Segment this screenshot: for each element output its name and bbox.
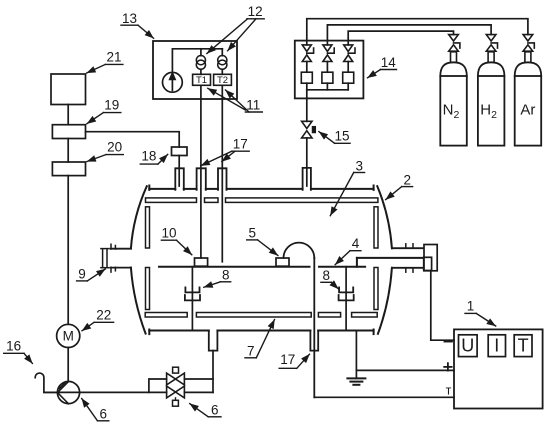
cylinder dome H bbox=[478, 62, 505, 76]
left end cap curve bottom bbox=[131, 268, 146, 334]
inlet valve 15 bbox=[302, 121, 312, 128]
right vertical shield upper bbox=[374, 207, 378, 248]
right end cap curve bottom bbox=[378, 268, 392, 334]
svg-text:19: 19 bbox=[104, 98, 119, 113]
left vertical shield upper bbox=[146, 207, 150, 248]
bottom heat shield bar 3 bbox=[318, 313, 340, 318]
wire feedthrough to minus terminal bbox=[431, 271, 454, 340]
cylinder body Ar bbox=[515, 76, 542, 146]
pump vanes bbox=[58, 382, 69, 393]
unit 1 I module bbox=[488, 335, 505, 357]
svg-text:2: 2 bbox=[403, 172, 411, 187]
svg-text:T: T bbox=[518, 336, 529, 356]
label 17 bbox=[279, 352, 309, 368]
svg-text:M: M bbox=[63, 329, 74, 344]
valve 6 upper bowtie bbox=[167, 373, 176, 385]
chamber ground wire bbox=[355, 331, 357, 379]
chamber top wall bbox=[149, 188, 175, 190]
label 13 bbox=[121, 11, 154, 38]
label 18 bbox=[140, 149, 167, 164]
heater contact 8 right bottom cup bbox=[339, 295, 354, 300]
bottom heat shield bar 4 bbox=[352, 313, 378, 318]
svg-text:15: 15 bbox=[334, 129, 349, 144]
heater contact 8 left wire bbox=[191, 267, 193, 330]
svg-text:12: 12 bbox=[248, 4, 263, 19]
box 21 (power controller) bbox=[51, 74, 86, 105]
recorder 12 right (double circle) bbox=[218, 56, 227, 65]
label 15 bbox=[319, 129, 350, 144]
svg-text:I: I bbox=[494, 336, 499, 356]
svg-text:6: 6 bbox=[211, 402, 219, 417]
gas nozzle block 5 bbox=[276, 258, 289, 266]
bottom wall end ticks bbox=[148, 330, 150, 335]
pump 6 circle bbox=[57, 381, 79, 403]
right end cap curve top bbox=[377, 186, 392, 248]
stage step to rod 4 bbox=[356, 258, 358, 267]
label 6 bbox=[190, 402, 221, 417]
wire recorders to T boxes bbox=[200, 69, 202, 74]
svg-text:4: 4 bbox=[352, 236, 360, 251]
svg-text:1: 1 bbox=[467, 299, 475, 314]
sample block 10 bbox=[195, 258, 208, 266]
right vertical shield lower bbox=[374, 268, 378, 310]
sampling tube arc 5 bbox=[284, 243, 315, 258]
pipe valve6 right top bbox=[184, 378, 213, 380]
label 22 bbox=[82, 307, 114, 331]
manifold filter square 1 bbox=[301, 72, 312, 83]
label 14 bbox=[368, 55, 397, 78]
cylinder valve N bbox=[449, 35, 459, 41]
box 13 (measurement unit) bbox=[153, 41, 237, 99]
bypass pipe left bbox=[149, 379, 167, 392]
recorder 12 left (double circle) bbox=[196, 56, 205, 65]
wire box19 to box18 bbox=[86, 132, 180, 147]
cylinder neck Ar bbox=[525, 52, 531, 63]
plus wire to unit 1 bbox=[356, 369, 454, 371]
box 20 (unit) bbox=[52, 162, 85, 176]
svg-text:U: U bbox=[461, 336, 474, 356]
manifold outlet wire bbox=[306, 90, 308, 122]
valve 6 bottom stem square bbox=[175, 398, 177, 400]
feedthrough box outer bbox=[424, 245, 437, 271]
cylinder dome N bbox=[440, 62, 467, 76]
svg-text:9: 9 bbox=[78, 267, 86, 282]
wire motor-pump bbox=[67, 348, 69, 382]
label 7 bbox=[245, 320, 275, 359]
label 19 bbox=[87, 98, 121, 124]
manipulator rod 4 bbox=[357, 257, 424, 259]
label 12 bbox=[207, 4, 264, 54]
heater contact 8 left top cup bbox=[185, 287, 199, 292]
svg-text:8: 8 bbox=[222, 267, 230, 282]
manifold collector line bbox=[307, 89, 348, 91]
svg-text:Ar: Ar bbox=[520, 102, 535, 119]
label 10 bbox=[161, 226, 191, 255]
right thermocouple port well bbox=[310, 331, 318, 351]
label 8 bbox=[321, 268, 338, 289]
gas line Ar to manifold bbox=[307, 19, 528, 45]
svg-text:5: 5 bbox=[248, 226, 256, 241]
ground symbol bbox=[347, 377, 365, 379]
unit 1 U module bbox=[459, 335, 478, 357]
viewport 9 tube bbox=[111, 248, 131, 250]
T1 box bbox=[193, 74, 211, 85]
manifold valve 1 bbox=[302, 45, 311, 52]
label 2 bbox=[386, 172, 413, 199]
manifold valve 2 bbox=[323, 45, 332, 52]
pipe pump to valve 6 bbox=[44, 391, 167, 393]
motor M22 circle bbox=[57, 324, 80, 347]
bottom heat shield bar 1 bbox=[145, 313, 187, 318]
svg-text:17: 17 bbox=[233, 136, 248, 151]
svg-text:21: 21 bbox=[106, 49, 121, 64]
svg-text:8: 8 bbox=[322, 268, 330, 283]
unit 1 T module bbox=[514, 335, 532, 357]
wire box21-box19 bbox=[67, 105, 69, 125]
wire valve15 to chamber port bbox=[306, 138, 308, 186]
cylinder body N bbox=[440, 76, 467, 146]
cylinder dome Ar bbox=[515, 62, 542, 76]
label 6 bbox=[82, 399, 109, 422]
chamber bottom wall bbox=[149, 330, 209, 332]
top heat shield bar left bbox=[146, 198, 197, 203]
left end cap curve top bbox=[131, 186, 147, 248]
label 20 bbox=[87, 140, 123, 162]
port stub for feedthrough 18 bbox=[175, 168, 184, 190]
manifold valve 3 bbox=[344, 45, 353, 52]
gauge circle with arrow bbox=[163, 72, 183, 92]
gas inlet port stub bbox=[303, 168, 311, 190]
svg-text:3: 3 bbox=[355, 158, 363, 173]
right port flange ticks bbox=[405, 244, 407, 248]
svg-text:13: 13 bbox=[122, 11, 137, 26]
box 14 (gas manifold) bbox=[295, 41, 364, 99]
sampling tube 17 down bbox=[313, 258, 315, 397]
svg-text:T1: T1 bbox=[196, 75, 207, 86]
svg-text:6: 6 bbox=[99, 406, 107, 421]
label 1 bbox=[465, 299, 496, 327]
gas line H2 to manifold bbox=[327, 25, 491, 45]
left pump port well bbox=[209, 331, 218, 351]
heater contact 8 right top cup bbox=[339, 287, 353, 292]
T2 box bbox=[214, 74, 232, 85]
valve 6 top stem square bbox=[173, 367, 179, 373]
cylinder valve H bbox=[486, 35, 496, 41]
feedthrough box inner bbox=[424, 257, 432, 270]
svg-text:20: 20 bbox=[107, 140, 122, 155]
label 8 bbox=[204, 267, 231, 287]
svg-text:22: 22 bbox=[96, 307, 111, 322]
manifold filter square 3 bbox=[343, 72, 354, 83]
gas line N2 to manifold bbox=[348, 31, 453, 45]
cylinder valve Ar bbox=[523, 35, 533, 41]
pipe valve6 right bottom bbox=[184, 391, 213, 393]
cylinder neck H bbox=[488, 52, 494, 63]
manifold wires column 1 bbox=[306, 62, 308, 73]
wire gauge to recorders bbox=[172, 49, 222, 73]
label 17 bbox=[201, 136, 249, 165]
wire box18 into port stub bbox=[178, 156, 180, 187]
label 3 bbox=[330, 158, 364, 215]
bottom heat shield bar 2 bbox=[196, 313, 311, 318]
wire box20-motor bbox=[67, 176, 69, 325]
svg-text:T2: T2 bbox=[217, 75, 228, 86]
heater contact 8 right wire bbox=[345, 267, 347, 330]
top heat shield bar middle bbox=[205, 198, 219, 203]
heater contact 8 left bottom cup bbox=[185, 295, 200, 300]
sample stage line 7 bbox=[159, 266, 310, 268]
label 9 bbox=[77, 267, 106, 282]
svg-text:16: 16 bbox=[6, 338, 21, 353]
thermocouple wire to unit 1 bbox=[314, 396, 454, 398]
svg-text:7: 7 bbox=[247, 343, 255, 358]
box 18 (feedthrough) bbox=[172, 147, 188, 156]
top wall end ticks bbox=[148, 186, 150, 190]
port stub 17 right bbox=[218, 168, 227, 190]
right port tube bbox=[392, 247, 424, 249]
top heat shield bar right bbox=[226, 198, 378, 203]
label 16 bbox=[4, 338, 33, 363]
label 11 bbox=[208, 88, 262, 112]
thermocouple rod T1 bbox=[200, 85, 202, 258]
pipe up to chamber pump port bbox=[212, 351, 214, 393]
svg-text:т: т bbox=[446, 383, 452, 397]
manifold wires column 2 bbox=[326, 62, 328, 73]
svg-text:18: 18 bbox=[141, 149, 156, 164]
wire box19-box20 bbox=[67, 139, 69, 163]
unit 1 box bbox=[454, 329, 543, 408]
inlet squiggle 16 bbox=[35, 373, 57, 392]
svg-text:11: 11 bbox=[246, 98, 260, 113]
thermocouple rod T2 bbox=[221, 85, 223, 261]
label 5 bbox=[247, 226, 278, 256]
valve 6 lower bowtie bbox=[167, 386, 176, 398]
viewport 9 flange ticks bbox=[110, 244, 112, 249]
label 21 bbox=[87, 49, 123, 73]
terminal minus bbox=[445, 341, 452, 343]
terminal plus bbox=[444, 366, 451, 368]
left vertical shield lower bbox=[146, 268, 150, 310]
box 19 (regulator) bbox=[52, 125, 85, 139]
manifold filter square 2 bbox=[322, 72, 333, 83]
viewport 9 window glass bbox=[102, 249, 104, 267]
cylinder neck N bbox=[451, 52, 457, 63]
manifold wires column 3 bbox=[347, 62, 349, 73]
cylinder body H bbox=[478, 76, 505, 146]
svg-text:10: 10 bbox=[161, 226, 176, 241]
label 4 bbox=[335, 236, 361, 265]
port stub 17 left bbox=[197, 168, 206, 190]
svg-text:14: 14 bbox=[381, 55, 397, 70]
svg-text:17: 17 bbox=[280, 352, 295, 367]
